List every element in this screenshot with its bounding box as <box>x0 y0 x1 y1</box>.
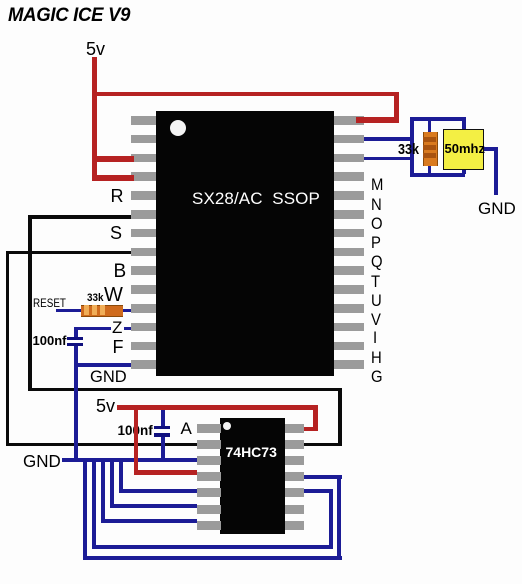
wire blue XT1 bottom stub <box>462 169 466 174</box>
wire red drop to U2 pin1 <box>313 405 318 431</box>
capacitor C2 100nf top plate <box>154 426 170 430</box>
capacitor C1 100nf bottom plate <box>67 343 83 347</box>
wire black R to frame <box>28 215 131 219</box>
U2 pin-1 dot <box>223 422 231 430</box>
IC U2 74HC73 body <box>220 418 285 534</box>
node I label <box>373 330 377 347</box>
title MAGIC ICE V9 <box>8 6 130 26</box>
resistor R2 33k body <box>81 305 123 317</box>
wire blue Z right segment <box>124 327 132 331</box>
wire black right vertical <box>338 388 342 447</box>
label 100nf (C2) <box>118 424 153 438</box>
wire red to U1 pin1 right <box>356 117 399 123</box>
wire blue v5 down <box>119 458 123 493</box>
wire red stub to U1 pin4 <box>92 175 134 181</box>
wire blue RESET to resistor <box>56 309 82 313</box>
resistor R2 bands <box>84 305 89 315</box>
wire blue v4 down <box>110 458 114 508</box>
wire blue inner right vertical <box>329 489 333 550</box>
capacitor C2 100nf bottom plate <box>154 433 170 437</box>
label GND (lower left) <box>23 453 61 471</box>
IC U1 SX28/AC SSOP body <box>156 111 334 376</box>
U2 right pins 8-14 <box>285 424 305 433</box>
wire blue GND pin14 <box>74 363 131 367</box>
label RESET <box>33 299 66 311</box>
wire blue XT1 to GND horizontal <box>484 147 498 151</box>
node G label <box>371 369 383 386</box>
wire red branch down (x134) <box>134 405 139 475</box>
crystal XT1 50mhz body <box>443 129 484 170</box>
wire blue C2 down to GND rail <box>161 437 165 462</box>
node T label <box>371 274 380 291</box>
label 5v (top) <box>86 40 105 58</box>
node H label <box>371 350 382 367</box>
node A label <box>181 420 192 437</box>
U1 value label SX28/AC SSOP <box>192 190 320 207</box>
wire blue GND vertical (crystal) <box>494 147 499 195</box>
wire black inner vertical <box>28 215 32 391</box>
wire blue crystal left vertical <box>410 117 414 177</box>
U1 pin-1 dot <box>170 120 186 136</box>
label 5v (lower) <box>96 397 115 415</box>
capacitor C1 100nf top plate <box>67 337 83 341</box>
label 33k (reset resistor) <box>87 293 104 304</box>
node N label <box>371 197 382 214</box>
wire blue v5 to 74HC73 pin5 <box>119 489 198 493</box>
wire black inner bottom horizontal <box>28 388 342 392</box>
node W label <box>104 285 123 305</box>
node U label <box>371 293 382 310</box>
wire blue resistor bottom stub <box>428 165 432 174</box>
wire blue C1 down to GND rail <box>74 346 78 462</box>
wire blue GND rail horizontal <box>62 458 197 462</box>
wire red 5v lower horizontal <box>117 405 318 410</box>
wire blue resistor top stub <box>428 121 432 133</box>
wire blue Z left segment <box>74 327 111 331</box>
wire blue bottom outer horizontal <box>83 556 342 560</box>
wire black outer vertical <box>6 251 9 447</box>
wire blue resistor to pin W <box>123 309 131 313</box>
wire blue crystal top horizontal <box>410 117 466 121</box>
crystal XT1 label 50mhz <box>445 142 485 155</box>
wire red stub to U1 pin3 <box>92 156 134 162</box>
wire red right vertical (crystal) <box>394 92 399 123</box>
wire red 5v top vertical <box>92 57 97 181</box>
wire blue v3 down <box>101 458 105 524</box>
node F label <box>113 338 124 356</box>
node S label <box>110 224 122 242</box>
wire red to U2 pin4 left <box>134 470 198 475</box>
wire blue outer right vertical <box>337 475 341 560</box>
U2 value label 74HC73 <box>226 445 277 459</box>
U2 left pins 1-7 <box>197 424 221 433</box>
node P label <box>371 235 381 252</box>
wire blue crystal top drop to XT1 <box>462 117 466 129</box>
label 100nf (C1) <box>33 334 67 347</box>
wire blue 74HC73 pin5 right <box>304 489 333 493</box>
wire red into U2 pin1 <box>304 427 318 432</box>
label GND (crystal) <box>478 200 516 217</box>
label 33k (crystal resistor) <box>398 142 419 157</box>
node Q label <box>371 254 383 271</box>
node Z label <box>112 319 122 336</box>
wire red main top horizontal <box>92 92 399 97</box>
resistor R1 33k vertical body <box>423 132 438 166</box>
node R label <box>111 187 124 205</box>
node M label <box>371 177 383 194</box>
wire blue Z drop to capacitor <box>74 327 78 338</box>
wire black bottom horizontal to 74HC73 pin <box>6 443 343 447</box>
U1 right pins 1-14 <box>334 116 364 125</box>
wire blue v3 to 74HC73 pin7 <box>101 519 197 523</box>
wire blue crystal bottom horizontal <box>410 173 465 177</box>
wire blue U1 pin3 right <box>364 157 410 161</box>
resistor R1 bands <box>423 137 436 142</box>
node V label <box>371 312 381 329</box>
label GND (under F) <box>90 369 127 386</box>
node B label <box>114 262 127 281</box>
wire blue 74HC73 pin4 right <box>304 475 342 479</box>
wire blue C2 top from 5v rail <box>161 406 165 427</box>
U1 left pins 1-14 <box>131 116 156 125</box>
wire black S to frame <box>6 251 132 255</box>
wire blue v4 to 74HC73 pin6 <box>110 504 197 508</box>
wire blue U1 pin2 right <box>364 137 410 141</box>
wire blue v1 down <box>83 458 87 560</box>
wire blue v2 down <box>92 458 96 550</box>
wire blue bottom inner horizontal <box>92 545 333 549</box>
node O label <box>371 216 383 233</box>
